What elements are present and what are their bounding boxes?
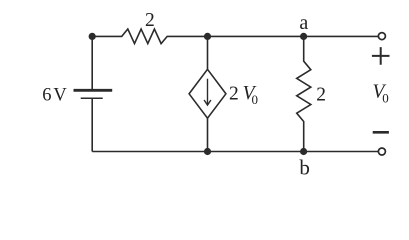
svg-text:a: a bbox=[299, 12, 308, 34]
svg-text:6: 6 bbox=[42, 86, 51, 106]
svg-text:2: 2 bbox=[145, 10, 155, 31]
svg-text:b: b bbox=[299, 156, 310, 180]
svg-text:2: 2 bbox=[229, 84, 239, 105]
svg-text:0: 0 bbox=[382, 91, 389, 106]
svg-text:0: 0 bbox=[252, 92, 259, 107]
svg-text:2: 2 bbox=[316, 84, 326, 105]
svg-text:V: V bbox=[53, 86, 67, 106]
